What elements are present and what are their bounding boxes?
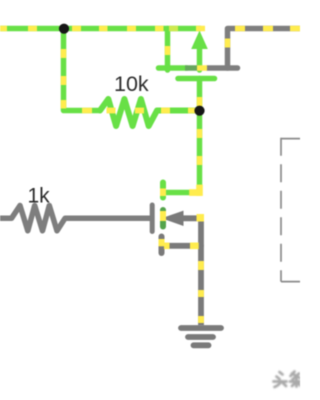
svg-text:10k: 10k: [114, 72, 149, 96]
svg-text:1k: 1k: [28, 185, 51, 208]
